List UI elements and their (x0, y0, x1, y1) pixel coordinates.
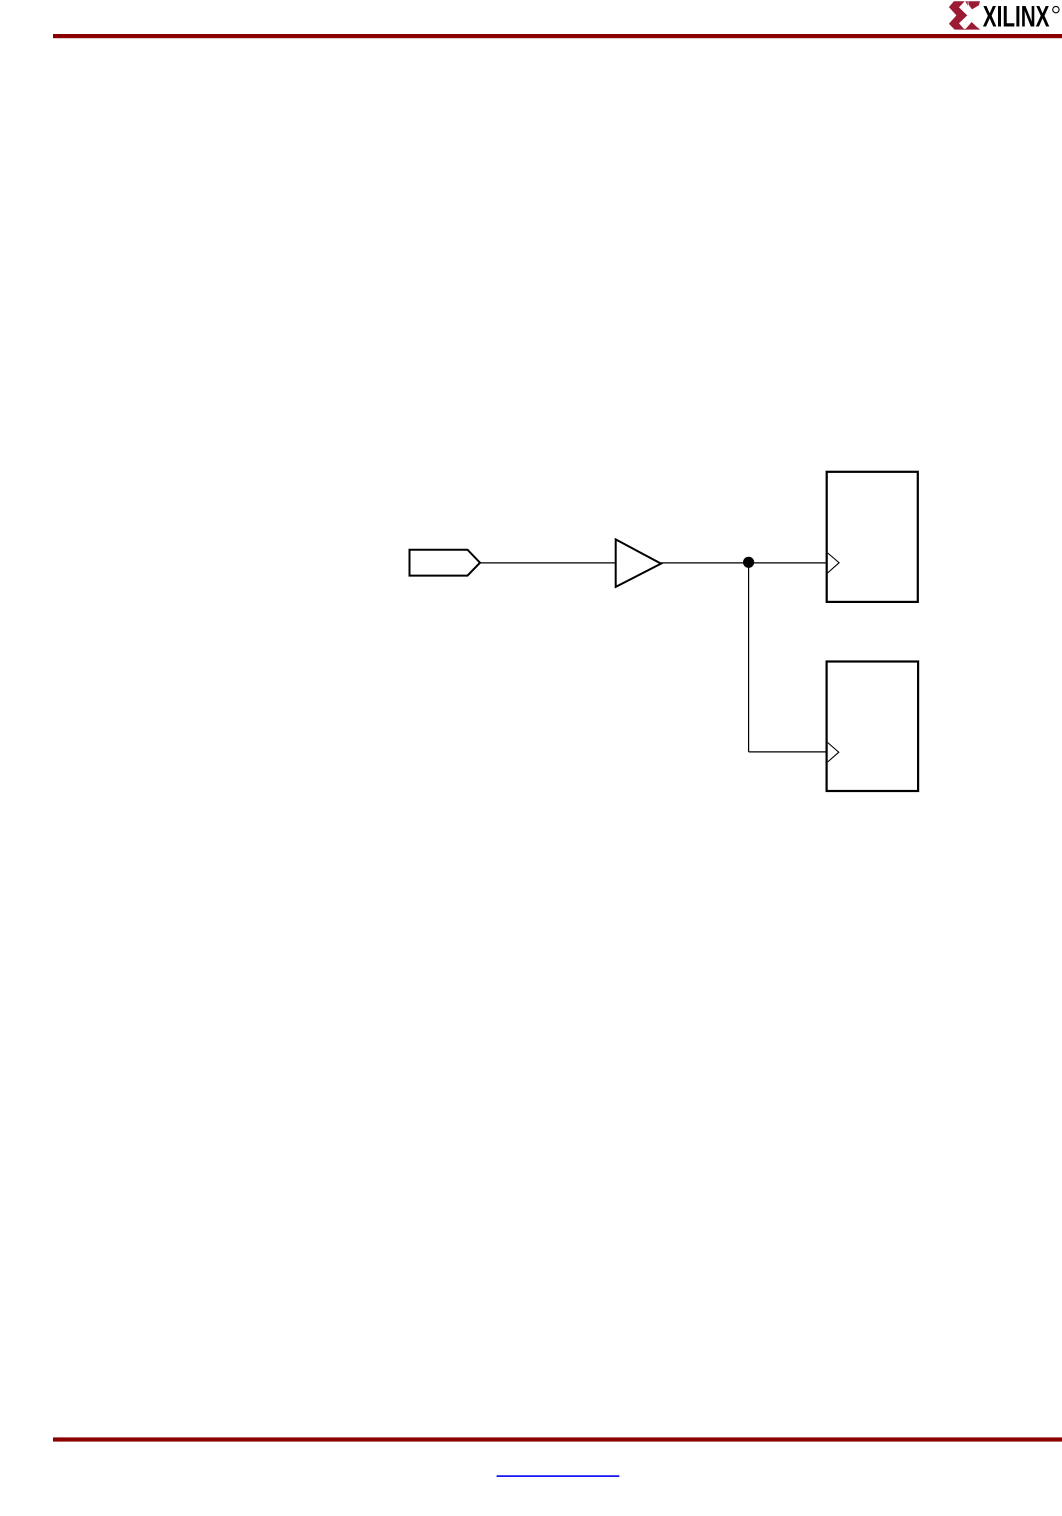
clock pin chevron 1 (828, 553, 839, 573)
Xilinx logo mark top fold sliver (965, 1, 968, 6)
wire pad to buffer (480, 562, 616, 564)
Xilinx logo mark bottom-right triangle (965, 22, 980, 30)
wire to flip-flop 2 (749, 751, 827, 753)
Xilinx logo mark left ribbon (949, 1, 967, 29)
net junction dot (743, 557, 754, 568)
registered trademark circle (1053, 6, 1059, 12)
footer link underline (497, 1475, 620, 1477)
wire junction down (748, 562, 750, 752)
clock pin chevron 2 (828, 743, 839, 763)
Xilinx logo mark top-right triangle (968, 1, 980, 9)
wire buffer to flip-flop 1 (661, 562, 827, 564)
svg-text:XILINX: XILINX (983, 0, 1050, 33)
flip-flop block 1 (827, 472, 918, 602)
flip-flop block 2 (827, 662, 919, 792)
footer rule (53, 1437, 1062, 1441)
input pad IPAD (410, 550, 481, 576)
buffer IBUFG (616, 539, 661, 587)
header rule (53, 34, 1062, 38)
